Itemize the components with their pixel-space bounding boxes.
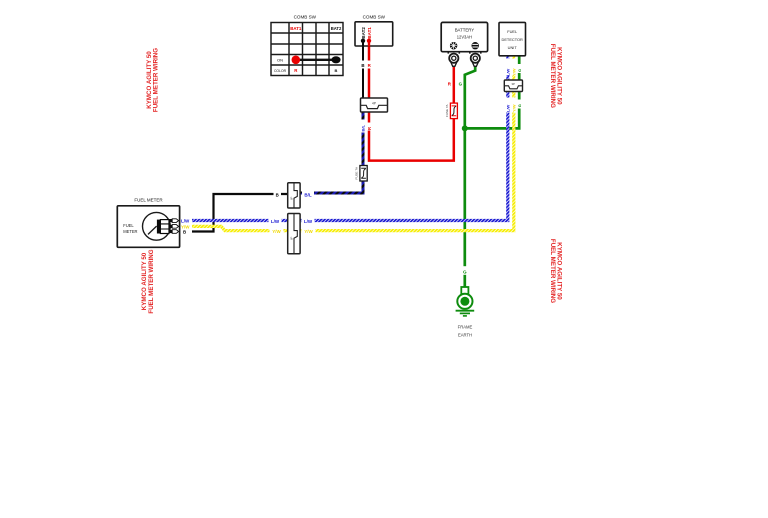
label: R below 4P connector bbox=[366, 123, 371, 131]
label: R on comb sw red lead bbox=[366, 61, 372, 69]
svg-text:L/W: L/W bbox=[271, 219, 280, 224]
wire: blue L/W bus bbox=[192, 92, 508, 221]
svg-text:L/W: L/W bbox=[304, 219, 313, 224]
battery plus terminal bbox=[450, 42, 457, 49]
svg-text:G: G bbox=[517, 104, 522, 107]
label: Y/W left of lower connector bbox=[270, 227, 284, 235]
svg-text:EARTH: EARTH bbox=[458, 333, 472, 338]
svg-text:ON: ON bbox=[277, 57, 283, 62]
title: right top KYMCO AGILITY 50 / FUEL METER WIRING bbox=[549, 44, 563, 108]
svg-text:FUSE 7A: FUSE 7A bbox=[354, 167, 358, 180]
svg-text:L/W: L/W bbox=[506, 68, 511, 76]
svg-text:G: G bbox=[463, 269, 467, 274]
svg-text:G: G bbox=[459, 82, 463, 87]
title: right bottom KYMCO AGILITY 50 / FUEL METER WIRING bbox=[549, 239, 563, 303]
svg-text:12V3AH: 12V3AH bbox=[457, 35, 472, 40]
label: L/W above 3P connector bbox=[505, 59, 510, 77]
svg-text:FRAME: FRAME bbox=[458, 325, 473, 330]
svg-text:4P: 4P bbox=[372, 101, 376, 105]
wire: black COMB SW BAT2 lead bbox=[362, 41, 364, 98]
svg-text:L/W: L/W bbox=[506, 104, 511, 112]
label: L/W below 3P connector bbox=[505, 98, 510, 113]
svg-text:L/W: L/W bbox=[181, 219, 190, 224]
wire: black B (fuel meter to 6P connector) bbox=[192, 194, 288, 232]
battery minus terminal bbox=[472, 42, 479, 49]
fuse FUSE 7A on B/L wire bbox=[354, 166, 367, 182]
svg-text:Y/W: Y/W bbox=[512, 104, 517, 112]
svg-text:COLOR: COLOR bbox=[274, 69, 287, 73]
svg-text:B: B bbox=[361, 63, 364, 68]
battery negative ring terminal bbox=[470, 52, 481, 67]
svg-text:Y/W: Y/W bbox=[304, 229, 313, 234]
label: FRAME EARTH bbox=[458, 325, 473, 338]
connector 4P bbox=[361, 98, 388, 112]
label: Y/W above 3P connector bbox=[511, 59, 516, 77]
svg-text:BAT1: BAT1 bbox=[290, 26, 302, 31]
fuse FUSE 7A on battery red wire bbox=[445, 103, 458, 119]
svg-text:FUEL: FUEL bbox=[507, 29, 518, 34]
junction: green dot at battery earth node bbox=[462, 125, 468, 131]
label: Y/W right of lower connector bbox=[302, 227, 316, 235]
svg-text:Y/W: Y/W bbox=[512, 68, 517, 76]
svg-text:B: B bbox=[276, 192, 279, 197]
title: left bottom KYMCO AGILITY 50 / FUEL METER WIRING bbox=[141, 249, 155, 313]
svg-text:BAT2: BAT2 bbox=[361, 27, 366, 39]
ground symbol bbox=[456, 311, 475, 316]
svg-text:FUEL METER WIRING: FUEL METER WIRING bbox=[153, 48, 160, 112]
wire: yellow Y/W stub above 3P bbox=[512, 56, 515, 80]
svg-text:B: B bbox=[335, 68, 338, 73]
svg-text:BATTERY: BATTERY bbox=[455, 27, 475, 32]
svg-text:BAT1: BAT1 bbox=[367, 27, 372, 39]
fuel meter pin L/W bbox=[169, 219, 179, 223]
svg-text:METER: METER bbox=[123, 229, 137, 234]
svg-text:FUEL METER WIRING: FUEL METER WIRING bbox=[549, 239, 556, 303]
fuel detector unit bbox=[499, 22, 526, 55]
title: left top KYMCO AGILITY 50 / FUEL METER WIRING bbox=[146, 48, 160, 112]
fuel meter bbox=[117, 198, 179, 248]
svg-text:FUEL METER WIRING: FUEL METER WIRING bbox=[148, 249, 155, 313]
comb sw contact table bbox=[271, 15, 343, 76]
label: B left of 6P connector bbox=[274, 190, 282, 198]
wire: green ground harness bbox=[465, 56, 519, 287]
svg-text:B: B bbox=[183, 230, 186, 235]
wire: blue L/W stub above 3P bbox=[506, 56, 509, 80]
frame earth ring terminal bbox=[457, 287, 472, 309]
fuel meter pin B bbox=[169, 230, 179, 234]
svg-text:FUEL METER WIRING: FUEL METER WIRING bbox=[549, 44, 556, 108]
battery bbox=[441, 22, 487, 66]
comb sw box bbox=[355, 15, 393, 47]
svg-text:COMB SW: COMB SW bbox=[363, 15, 386, 20]
svg-text:B/L: B/L bbox=[304, 193, 312, 198]
svg-text:BAT2: BAT2 bbox=[331, 26, 342, 31]
svg-text:G: G bbox=[517, 69, 522, 72]
label: L/W right of lower connector bbox=[302, 217, 315, 225]
svg-text:FUEL: FUEL bbox=[123, 223, 134, 228]
svg-text:R: R bbox=[367, 127, 372, 130]
svg-text:FUEL METER: FUEL METER bbox=[134, 198, 163, 203]
label: Y/W below 3P connector bbox=[511, 98, 516, 113]
svg-text:6P: 6P bbox=[290, 236, 294, 240]
wire: B/L striped (4P connector to fuse to 6P connector) bbox=[300, 112, 363, 193]
connector 3P bbox=[504, 80, 522, 92]
svg-text:3P: 3P bbox=[511, 82, 515, 86]
wire: yellow Y/W bus bbox=[192, 92, 514, 231]
svg-text:FUSE 7A: FUSE 7A bbox=[445, 104, 449, 117]
label: L/W left of lower connector bbox=[269, 217, 282, 225]
svg-text:DETECTOR: DETECTOR bbox=[502, 37, 524, 42]
battery positive ring terminal bbox=[448, 52, 459, 67]
label: B on comb sw black lead bbox=[360, 61, 366, 69]
label: B/L below 4P connector bbox=[360, 120, 365, 133]
connector 6P lower (L/W and Y/W wires) bbox=[288, 214, 300, 254]
svg-text:COMB SW: COMB SW bbox=[294, 15, 317, 20]
svg-text:B/L: B/L bbox=[361, 125, 366, 132]
connector 6P upper (B wire) bbox=[288, 183, 300, 208]
svg-text:6P: 6P bbox=[290, 196, 294, 200]
fuel meter pin Y/W bbox=[169, 225, 179, 229]
label: B/L right of 6P connector bbox=[302, 190, 314, 198]
label: G below 3P connector bbox=[517, 100, 522, 109]
label: G above frame earth bbox=[462, 266, 468, 275]
label: G above 3P connector bbox=[517, 64, 522, 73]
svg-text:UNIT: UNIT bbox=[508, 45, 518, 50]
wire: red battery feed (COMB SW BAT1 to fuse) bbox=[369, 41, 454, 161]
svg-text:Y/W: Y/W bbox=[272, 229, 281, 234]
